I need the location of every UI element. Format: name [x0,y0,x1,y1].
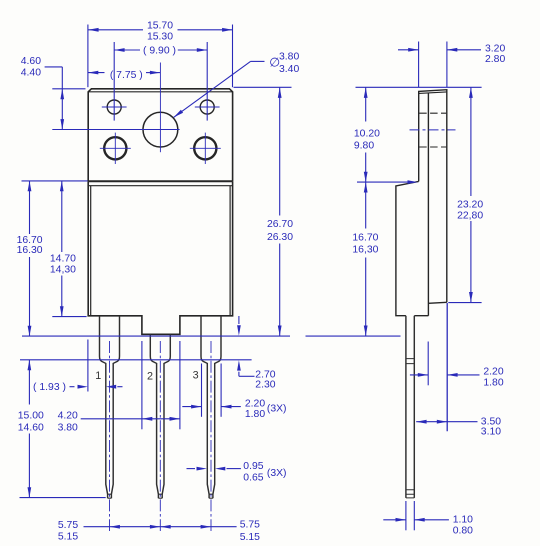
dim 4.20/3.80 extension lines [141,341,143,429]
dim 2.20/1.80 (3X) extension lines [201,364,203,417]
dim 26.70/26.30 line and arrows [279,88,281,216]
side view hole centerline [410,129,456,131]
svg-text:14.60: 14.60 [18,422,44,433]
hole bottom-left [104,137,126,159]
svg-text:9.80: 9.80 [354,140,374,151]
dim 23.20/22.80 line and arrows [470,88,472,197]
datum line at tab bottom (side) [306,335,401,337]
centerline top-right hole horizontal [195,106,220,108]
centerline bottom-left hole [100,147,131,149]
svg-text:26.70: 26.70 [267,219,293,230]
dim 0.95/0.65 (3X) line and arrows [187,468,196,470]
centerline bottom-right hole [190,147,221,149]
side view top tab outline [419,90,447,303]
dim 2.20/1.80 (3X) line and arrows [182,406,201,408]
side top extension line [356,86,482,88]
dim 1.10/0.80 line and arrows [383,519,406,521]
svg-text:23.20: 23.20 [457,199,483,210]
svg-text:15.00: 15.00 [18,411,44,422]
dim 1.10/0.80 extension lines [405,501,407,530]
svg-text:3.10: 3.10 [481,427,501,438]
svg-text:16.30: 16.30 [17,245,43,256]
centerline center hole horizontal [52,129,179,131]
svg-text:10.20: 10.20 [354,128,380,139]
dim 2.20/1.80 side extension line [427,342,429,386]
svg-text:5.15: 5.15 [240,532,260,543]
front view head bottom edge [88,180,232,182]
svg-text:16.70: 16.70 [352,232,378,243]
svg-text:( 7.75 ): ( 7.75 ) [110,70,143,81]
svg-text:4.40: 4.40 [21,68,41,79]
lead 1 centerline [109,341,111,531]
svg-text:2.30: 2.30 [255,379,275,390]
svg-text:(3X): (3X) [267,468,287,479]
svg-text:15.70: 15.70 [147,21,173,32]
svg-text:1: 1 [95,370,101,382]
dim 15.00/14.60 line and arrows [28,360,30,405]
dim 16.70/16.30 line and arrows [29,181,31,234]
center hole (diam 3.80/3.40) [143,112,178,147]
lead 3 outline [201,316,209,498]
dim (1.93) arrows [70,386,75,388]
dim 14.70 extension tick [52,316,86,318]
dim 2.20/1.80 side line and arrows [410,374,428,376]
svg-text:3.20: 3.20 [485,43,505,54]
dim 5.75/5.15 line and arrows [84,526,237,528]
front view head outline [88,89,232,181]
svg-text:14.70: 14.70 [50,254,76,265]
side step extension line with arrow [357,181,414,183]
dim (9.90) extension lines [113,42,115,121]
dim 23.20 extension tick [448,302,481,304]
dim 3.20/2.80 extension lines [418,42,420,88]
lead 3 centerline [210,341,212,531]
datum line at lead taper [20,359,252,361]
dim 26.70/26.30 extension line [234,86,292,88]
lead 2 centerline [159,341,161,531]
centerline top-left hole horizontal [102,106,127,108]
svg-text:5.75: 5.75 [240,520,260,531]
svg-text:15.30: 15.30 [147,31,173,42]
svg-text:4.20: 4.20 [58,411,78,422]
svg-text:2.80: 2.80 [485,54,505,65]
extension line head bottom level [22,180,88,182]
dim 15.70/15.30 line and arrows [88,29,143,31]
svg-text:3.80: 3.80 [58,422,78,433]
dim 10.20/9.80 line and arrows [365,88,367,122]
svg-text:2: 2 [147,370,153,382]
dim 15.70/15.30 extension lines [87,25,89,88]
front view body outline [88,181,232,334]
centerline center hole vertical [159,63,161,153]
dim (1.93) extension line [87,340,89,392]
leader diam 3.80/3.40 [251,60,265,62]
dim 14.70/14.30 line and arrows [61,181,63,252]
svg-text:( 9.90 ): ( 9.90 ) [143,45,176,56]
side view body outline [396,181,429,315]
dim 3.50/3.10 line and arrows [416,421,447,423]
dim 16.70/16.30 side line and arrows [365,182,367,228]
svg-text:1.80: 1.80 [483,378,503,389]
side back face extension line [446,303,448,431]
svg-text:1.80: 1.80 [245,409,265,420]
svg-text:0.95: 0.95 [243,461,263,472]
mounting hole top-left [107,100,121,114]
svg-text:3: 3 [193,369,199,381]
dim (7.75) line and arrows [88,72,105,74]
dim 3.20/2.80 line and arrows [398,49,419,51]
svg-text:14,30: 14,30 [50,264,76,275]
svg-text:5.15: 5.15 [58,531,78,542]
svg-text:( 1.93 ): ( 1.93 ) [33,382,66,393]
svg-text:3.80: 3.80 [279,52,299,63]
dim 2.70/2.30 arrows [238,316,240,324]
lead 1 outline [100,316,108,498]
svg-text:4.60: 4.60 [21,56,41,67]
side view lead outline [406,316,414,498]
svg-text:(3X): (3X) [267,404,287,415]
svg-text:5.75: 5.75 [58,520,78,531]
dim 4.20/3.80 line and arrows [81,418,180,420]
svg-text:0.65: 0.65 [243,472,263,483]
datum line at tab bottom (front) [22,335,290,337]
lead 2 outline [150,334,158,498]
svg-text:26.30: 26.30 [267,232,293,243]
dim 4.60/4.40 leader and arrows [45,66,63,68]
side view hole hidden lines [419,112,446,114]
dim (9.90) line and arrows [114,49,140,51]
svg-text:2.20: 2.20 [483,367,503,378]
svg-text:16,30: 16,30 [352,245,378,256]
svg-text:2.20: 2.20 [245,399,265,410]
dim 4.60/4.40 extension tick [52,88,85,90]
svg-text:0.80: 0.80 [453,525,473,536]
hole bottom-right [194,137,216,159]
mounting hole top-right [200,100,214,114]
datum line at lead tips [20,497,106,499]
svg-text:1.10: 1.10 [453,514,473,525]
svg-text:22,80: 22,80 [457,211,483,222]
svg-text:3.40: 3.40 [279,64,299,75]
